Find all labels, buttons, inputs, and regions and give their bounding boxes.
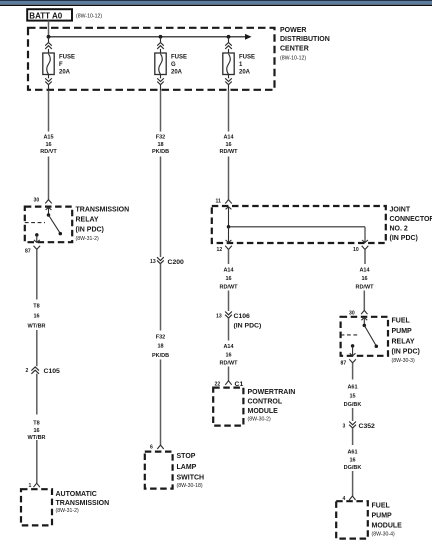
fuse G 20A [155, 37, 166, 91]
svg-text:(8W-31-2): (8W-31-2) [56, 508, 80, 514]
svg-text:TRANSMISSION: TRANSMISSION [56, 500, 110, 507]
svg-text:RD/WT: RD/WT [219, 361, 238, 367]
svg-text:RELAY: RELAY [392, 338, 415, 345]
svg-text:16: 16 [349, 457, 355, 463]
svg-text:16: 16 [361, 276, 367, 282]
terminal into joint connector [225, 200, 231, 204]
svg-text:C105: C105 [44, 368, 61, 375]
wire T8 upper segment [36, 249, 38, 299]
header bar [0, 0, 432, 6]
terminal into automatic transmission [34, 483, 40, 487]
svg-text:2: 2 [26, 368, 29, 374]
stop lamp switch box [145, 452, 173, 489]
svg-text:16: 16 [45, 142, 51, 148]
fuel pump module box [336, 501, 368, 538]
wire label A14 16 RD/WT [219, 135, 238, 156]
transmission relay box [25, 207, 72, 243]
svg-text:16: 16 [225, 142, 231, 148]
svg-text:A61: A61 [347, 384, 357, 390]
svg-text:RELAY: RELAY [76, 217, 99, 224]
svg-text:FUSE: FUSE [171, 55, 187, 61]
terminal into fuel pump relay [361, 310, 367, 314]
svg-text:C106: C106 [234, 313, 251, 320]
joint connector internals [226, 207, 368, 243]
automatic transmission box [21, 489, 52, 525]
svg-text:MODULE: MODULE [372, 523, 403, 530]
wire A15 lower segment [48, 157, 50, 200]
terminal out of transmission relay [34, 246, 41, 250]
svg-text:RD/WT: RD/WT [219, 284, 238, 290]
svg-text:DG/BK: DG/BK [344, 402, 362, 408]
svg-text:POWER: POWER [280, 27, 306, 34]
svg-text:POWERTRAIN: POWERTRAIN [248, 389, 296, 396]
wire label T8 16 WT/BR [27, 303, 45, 329]
svg-text:16: 16 [33, 314, 39, 320]
svg-text:C352: C352 [359, 423, 376, 430]
fuse F 20A [43, 37, 54, 91]
svg-text:(8W-30-3): (8W-30-3) [392, 358, 416, 364]
svg-text:4: 4 [343, 496, 346, 502]
svg-text:RD/WT: RD/WT [219, 149, 238, 155]
svg-text:SWITCH: SWITCH [177, 475, 205, 482]
connector C105 [26, 367, 61, 375]
wire T8 lower segment [36, 374, 38, 415]
svg-text:RD/VT: RD/VT [40, 149, 57, 155]
svg-text:STOP: STOP [177, 453, 196, 460]
wire F32 lower segment [160, 264, 162, 331]
wire label F32 18 PK/DB lower [152, 335, 169, 359]
svg-text:30: 30 [34, 198, 40, 204]
svg-text:(IN PDC): (IN PDC) [234, 322, 262, 329]
wire A14 mid segment [228, 157, 230, 200]
svg-text:(8W-30-2): (8W-30-2) [248, 416, 272, 422]
bus wire with arrow [49, 34, 252, 40]
svg-text:LAMP: LAMP [177, 464, 197, 471]
svg-text:(8W-30-4): (8W-30-4) [372, 532, 396, 538]
wire A61 mid segment [352, 408, 354, 421]
svg-text:16: 16 [33, 428, 39, 434]
svg-text:16: 16 [225, 352, 231, 358]
svg-text:20A: 20A [59, 69, 71, 75]
stop lamp switch label [177, 453, 205, 489]
svg-text:13: 13 [150, 259, 156, 265]
powertrain control module box [213, 388, 243, 426]
svg-text:1: 1 [239, 62, 243, 68]
wire A14 pcm branch upper [228, 250, 230, 265]
fuel pump relay box [341, 317, 388, 356]
svg-text:1: 1 [29, 483, 32, 489]
fuel pump relay internals [341, 318, 378, 356]
battery feed BATT A0 box [27, 9, 102, 20]
svg-text:TRANSMISSION: TRANSMISSION [76, 207, 130, 214]
terminal into stop lamp switch [157, 445, 163, 449]
terminal out of fuel pump relay [349, 359, 356, 363]
svg-text:A14: A14 [359, 268, 370, 274]
svg-text:10: 10 [353, 247, 359, 253]
node at fuse G [159, 35, 163, 39]
svg-text:A14: A14 [223, 344, 234, 350]
wire label A14 16 RD/WT fuel pump branch [355, 268, 374, 291]
svg-text:3: 3 [343, 423, 346, 429]
svg-text:JOINT: JOINT [390, 207, 411, 214]
svg-text:A15: A15 [43, 135, 53, 141]
svg-text:(IN PDC): (IN PDC) [392, 349, 420, 356]
svg-text:6: 6 [150, 445, 153, 451]
wire label A14 16 RD/WT pcm branch [219, 268, 238, 291]
svg-text:PK/DB: PK/DB [152, 149, 169, 155]
svg-text:PK/DB: PK/DB [152, 353, 169, 359]
svg-text:12: 12 [217, 247, 223, 253]
wire A14 to fuel pump relay [363, 291, 365, 311]
svg-text:WT/BR: WT/BR [27, 324, 45, 330]
transmission relay internals [25, 207, 62, 242]
wire F32 bottom segment [160, 360, 162, 445]
svg-text:AUTOMATIC: AUTOMATIC [56, 491, 97, 498]
wire A61 bottom segment [352, 471, 354, 496]
wire label A14 16 RD/WT above C1 [219, 344, 238, 367]
terminal into fuel pump module [349, 496, 355, 500]
svg-text:T8: T8 [33, 420, 39, 426]
wire F32 upper segment [160, 91, 162, 132]
wire T8 mid segment [36, 330, 38, 366]
wire label A61 15 DG/BK [344, 384, 362, 408]
svg-text:FUEL: FUEL [392, 318, 411, 325]
svg-text:(IN PDC): (IN PDC) [390, 235, 418, 242]
svg-text:20A: 20A [239, 69, 251, 75]
wire label A61 16 DG/BK lower [344, 449, 362, 471]
connector C106 [216, 312, 261, 330]
powertrain control module label [248, 389, 296, 422]
fuel pump module label [372, 503, 403, 538]
connector C200 [150, 257, 184, 266]
svg-text:15: 15 [349, 393, 355, 399]
terminal C1 into powertrain control module [225, 381, 243, 388]
wire T8 bottom segment [36, 440, 38, 483]
fuse F label [59, 55, 75, 76]
svg-text:DG/BK: DG/BK [344, 465, 362, 471]
svg-text:87: 87 [25, 248, 31, 254]
joint connector no. 2 box [212, 206, 386, 243]
wire A61 upper segment [352, 363, 354, 380]
svg-text:PUMP: PUMP [392, 328, 413, 335]
svg-text:11: 11 [216, 199, 222, 205]
terminal out of joint connector pin 12 [225, 246, 232, 250]
svg-text:DISTRIBUTION: DISTRIBUTION [280, 36, 330, 43]
connector C352 [343, 422, 376, 431]
svg-text:NO. 2: NO. 2 [390, 226, 408, 233]
wire A14 fuel pump branch upper [364, 250, 366, 265]
node at fuse 1 [227, 35, 231, 39]
svg-text:22: 22 [215, 381, 221, 387]
node at fuse F [47, 35, 51, 39]
svg-text:T8: T8 [33, 303, 39, 309]
wire A14 into C1 [228, 367, 230, 381]
svg-text:F32: F32 [156, 135, 165, 141]
svg-text:F: F [59, 62, 63, 68]
svg-text:C200: C200 [168, 259, 185, 266]
svg-text:13: 13 [216, 313, 222, 319]
svg-text:FUEL: FUEL [372, 503, 391, 510]
svg-text:(IN PDC): (IN PDC) [76, 226, 104, 233]
fuse 1 label [239, 55, 255, 76]
svg-text:16: 16 [225, 276, 231, 282]
wire A14 pcm branch lower [228, 318, 230, 341]
wire F32 mid segment [160, 157, 162, 258]
svg-text:CONTROL: CONTROL [248, 398, 283, 405]
svg-text:18: 18 [157, 142, 163, 148]
svg-text:(8W-10-12): (8W-10-12) [76, 14, 102, 20]
automatic transmission label [56, 491, 110, 514]
svg-text:F32: F32 [156, 335, 165, 341]
svg-text:18: 18 [157, 344, 163, 350]
svg-text:30: 30 [349, 310, 355, 316]
svg-text:MODULE: MODULE [248, 408, 279, 415]
terminal out of joint connector pin 10 [362, 246, 369, 250]
svg-text:CONNECTOR: CONNECTOR [390, 216, 432, 223]
svg-text:G: G [171, 62, 176, 68]
wire A14 upper segment [228, 91, 230, 132]
joint connector label [390, 207, 432, 243]
svg-text:FUSE: FUSE [59, 55, 75, 61]
svg-text:87: 87 [341, 361, 347, 367]
svg-text:20A: 20A [171, 69, 183, 75]
fuse 1 20A [223, 37, 234, 91]
fuel pump relay label [392, 318, 420, 364]
wire label F32 18 PK/DB [152, 135, 169, 156]
fuse G label [171, 55, 187, 76]
svg-text:FUSE: FUSE [239, 55, 255, 61]
power distribution center dashed box [28, 28, 275, 90]
svg-text:A14: A14 [223, 135, 234, 141]
svg-text:CENTER: CENTER [280, 46, 309, 53]
svg-text:BATT A0: BATT A0 [29, 11, 62, 20]
wire label A15 16 RD/VT [40, 135, 57, 156]
wire A14 pcm branch to C106 [228, 291, 230, 312]
terminal into transmission relay [45, 200, 51, 204]
svg-text:PUMP: PUMP [372, 513, 393, 520]
wire from BATT A0 to bus [48, 21, 50, 37]
svg-text:(8W-31-2): (8W-31-2) [76, 236, 100, 242]
svg-text:(8W-30-18): (8W-30-18) [177, 483, 203, 489]
wire A61 lower segment [352, 428, 354, 445]
svg-text:RD/WT: RD/WT [355, 284, 374, 290]
transmission relay label [76, 207, 130, 242]
svg-text:A61: A61 [347, 449, 357, 455]
wire A15 upper segment [48, 91, 50, 132]
wire label T8 16 WT/BR lower [27, 420, 45, 441]
power distribution center label [280, 27, 330, 62]
svg-text:A14: A14 [223, 268, 234, 274]
svg-text:(8W-10-12): (8W-10-12) [280, 56, 306, 62]
